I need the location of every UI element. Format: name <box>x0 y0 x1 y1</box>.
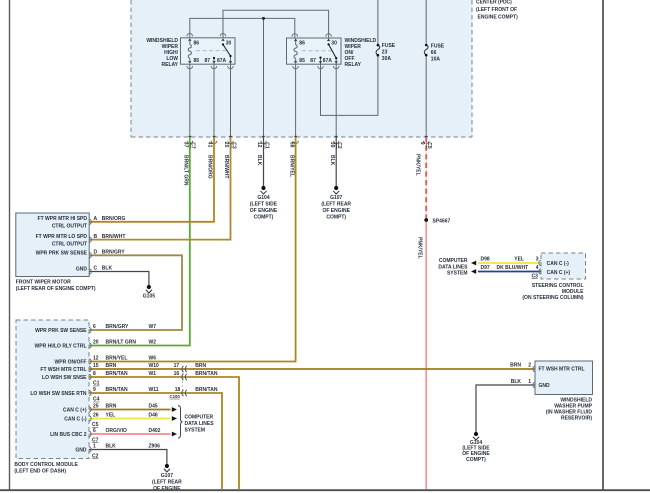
svg-text:87A: 87A <box>323 58 333 64</box>
svg-text:OF ENGINE: OF ENGINE <box>322 208 350 214</box>
svg-text:CAN C (-): CAN C (-) <box>64 417 87 423</box>
svg-text:C2: C2 <box>336 142 342 149</box>
svg-text:6: 6 <box>93 324 96 330</box>
svg-text:DATA LINES: DATA LINES <box>438 264 468 270</box>
svg-text:BODY CONTROL MODULE: BODY CONTROL MODULE <box>14 462 78 468</box>
svg-text:FT WSH MTR CTRL: FT WSH MTR CTRL <box>539 367 585 373</box>
svg-text:BLK: BLK <box>329 155 335 166</box>
svg-text:87: 87 <box>310 58 316 64</box>
svg-text:(LEFT SIDE: (LEFT SIDE <box>250 202 278 208</box>
svg-text:BRN/WHT: BRN/WHT <box>102 234 126 240</box>
svg-text:BRN/LT GRN: BRN/LT GRN <box>106 340 137 346</box>
svg-text:WPR HI/LO RLY CTRL: WPR HI/LO RLY CTRL <box>35 344 87 350</box>
svg-text:RELAY: RELAY <box>162 62 179 68</box>
svg-text:30: 30 <box>226 40 232 46</box>
svg-text:10A: 10A <box>431 56 441 62</box>
svg-text:LO WSH SW SNSE RTN: LO WSH SW SNSE RTN <box>30 391 87 397</box>
svg-text:BRN/GRY: BRN/GRY <box>106 324 130 330</box>
svg-text:C100: C100 <box>170 394 181 399</box>
svg-text:DATA LINES: DATA LINES <box>185 421 215 427</box>
svg-text:OF ENGINE: OF ENGINE <box>250 208 278 214</box>
svg-text:85: 85 <box>194 58 200 64</box>
svg-text:BRN/WHT: BRN/WHT <box>223 155 229 179</box>
svg-text:CAN C (+): CAN C (+) <box>63 408 87 414</box>
svg-text:BLK: BLK <box>256 155 262 166</box>
svg-text:12: 12 <box>256 142 262 148</box>
svg-text:LIN BUS CBC 2: LIN BUS CBC 2 <box>50 432 87 438</box>
svg-text:BLK: BLK <box>102 266 113 272</box>
svg-text:C5: C5 <box>426 142 432 149</box>
svg-text:FT WPR MTR LO SPD: FT WPR MTR LO SPD <box>36 234 88 240</box>
svg-text:30: 30 <box>331 41 337 47</box>
svg-text:20: 20 <box>93 340 99 346</box>
svg-text:A: A <box>94 216 98 222</box>
svg-text:COMPUTER: COMPUTER <box>185 414 214 420</box>
svg-text:FUSE: FUSE <box>431 43 445 49</box>
svg-text:FT WPR MTR HI SPD: FT WPR MTR HI SPD <box>38 216 88 222</box>
svg-text:C1: C1 <box>93 381 100 387</box>
svg-text:41: 41 <box>207 142 213 148</box>
svg-text:CTRL OUTPUT: CTRL OUTPUT <box>52 241 87 247</box>
svg-text:(LEFT END OF DASH): (LEFT END OF DASH) <box>14 468 66 474</box>
svg-text:C7: C7 <box>190 142 196 149</box>
svg-text:4: 4 <box>536 265 539 271</box>
svg-text:C4: C4 <box>93 397 100 403</box>
svg-text:D98: D98 <box>481 257 490 263</box>
svg-text:37: 37 <box>183 142 189 148</box>
svg-text:RELAY: RELAY <box>345 62 362 68</box>
svg-text:FT WSH MTR CTRL: FT WSH MTR CTRL <box>40 367 86 373</box>
svg-text:COMPT): COMPT) <box>254 215 274 221</box>
svg-text:BRN/YEL: BRN/YEL <box>106 356 128 362</box>
svg-text:BRN/ORG: BRN/ORG <box>102 216 126 222</box>
svg-text:D97: D97 <box>481 265 490 271</box>
svg-text:BRN/LT GRN: BRN/LT GRN <box>183 155 189 186</box>
svg-text:30A: 30A <box>382 56 392 62</box>
svg-text:FRONT WIPER MOTOR: FRONT WIPER MOTOR <box>16 280 71 286</box>
svg-text:BLK: BLK <box>106 444 117 450</box>
svg-text:9: 9 <box>419 142 425 145</box>
svg-text:W6: W6 <box>149 356 157 362</box>
svg-text:COMPT): COMPT) <box>326 215 346 221</box>
svg-text:87A: 87A <box>217 58 227 64</box>
svg-text:SP4667: SP4667 <box>433 218 451 224</box>
svg-text:PNK/YEL: PNK/YEL <box>415 154 421 176</box>
svg-text:86: 86 <box>299 41 305 47</box>
svg-text:C3: C3 <box>532 274 539 280</box>
svg-text:C1: C1 <box>263 142 269 149</box>
svg-text:SYSTEM: SYSTEM <box>447 271 468 277</box>
svg-text:GND: GND <box>76 266 88 272</box>
svg-text:CENTER (PDC): CENTER (PDC) <box>476 0 512 6</box>
svg-text:C2: C2 <box>92 453 99 459</box>
svg-text:DK BLU/WHT: DK BLU/WHT <box>497 265 529 271</box>
svg-text:COMPT): COMPT) <box>466 457 486 463</box>
svg-text:CTRL OUTPUT: CTRL OUTPUT <box>52 224 87 230</box>
svg-text:58: 58 <box>288 142 294 148</box>
svg-text:WPR ON/OFF: WPR ON/OFF <box>55 360 87 366</box>
svg-text:G107: G107 <box>330 195 342 201</box>
svg-text:BRN: BRN <box>510 363 521 369</box>
svg-text:12: 12 <box>93 356 99 362</box>
svg-text:B: B <box>94 234 98 240</box>
svg-text:(LEFT REAR: (LEFT REAR <box>321 202 351 208</box>
svg-text:YEL: YEL <box>514 257 524 263</box>
svg-text:(LEFT REAR OF ENGINE COMPT): (LEFT REAR OF ENGINE COMPT) <box>16 286 96 292</box>
svg-text:2: 2 <box>528 363 531 369</box>
svg-text:39: 39 <box>329 142 335 148</box>
svg-text:66: 66 <box>431 50 437 56</box>
svg-text:CAN C (+): CAN C (+) <box>547 270 571 276</box>
svg-text:G104: G104 <box>257 195 269 201</box>
svg-text:(ON STEERING COLUMN): (ON STEERING COLUMN) <box>522 295 583 301</box>
svg-text:86: 86 <box>194 40 200 46</box>
svg-text:LO WSH SW SNSE: LO WSH SW SNSE <box>42 375 87 381</box>
svg-text:23: 23 <box>382 50 388 56</box>
svg-text:BLK: BLK <box>511 379 522 385</box>
svg-text:C3: C3 <box>230 142 236 149</box>
svg-text:87: 87 <box>205 58 211 64</box>
svg-text:GND: GND <box>75 448 87 454</box>
svg-text:COMPUTER: COMPUTER <box>439 258 468 264</box>
svg-text:W2: W2 <box>149 340 157 346</box>
svg-text:85: 85 <box>299 58 305 64</box>
svg-text:W7: W7 <box>149 324 157 330</box>
svg-text:Z906: Z906 <box>149 444 161 450</box>
svg-text:FUSE: FUSE <box>382 43 396 49</box>
svg-text:SYSTEM: SYSTEM <box>185 427 206 433</box>
svg-text:WPR PRK SW SENSE: WPR PRK SW SENSE <box>35 328 87 334</box>
svg-text:G105: G105 <box>143 294 155 300</box>
svg-text:(LEFT REAR: (LEFT REAR <box>152 480 182 486</box>
svg-text:20: 20 <box>223 142 229 148</box>
svg-text:3: 3 <box>536 257 539 263</box>
svg-text:WPR PRK SW SENSE: WPR PRK SW SENSE <box>36 251 88 257</box>
svg-text:1: 1 <box>93 444 96 450</box>
svg-text:G107: G107 <box>161 473 173 479</box>
svg-text:GND: GND <box>539 383 551 389</box>
svg-text:C: C <box>94 266 98 272</box>
svg-text:(LEFT FRONT OF: (LEFT FRONT OF <box>476 7 517 13</box>
svg-text:BRN/YEL: BRN/YEL <box>288 155 294 177</box>
svg-text:CAN C (-): CAN C (-) <box>547 261 570 267</box>
svg-text:PNK/YEL: PNK/YEL <box>416 237 422 259</box>
svg-text:BRN/ORG: BRN/ORG <box>207 155 213 179</box>
svg-text:ENGINE COMPT): ENGINE COMPT) <box>478 15 519 21</box>
svg-text:1: 1 <box>528 379 531 385</box>
svg-text:RESERVOIR): RESERVOIR) <box>561 416 592 422</box>
